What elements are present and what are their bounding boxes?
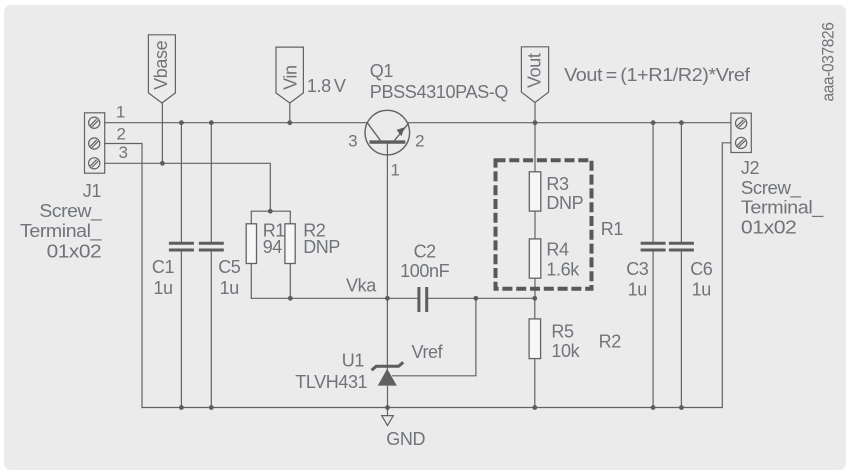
transistor Q1 <box>365 110 410 155</box>
svg-text:1: 1 <box>116 102 125 121</box>
svg-text:aaa-037826: aaa-037826 <box>820 22 838 101</box>
connector J2 screw terminal <box>731 113 751 152</box>
svg-text:1u: 1u <box>220 278 239 298</box>
capacitor C1 plates <box>169 243 194 250</box>
svg-text:PBSS4310PAS-Q: PBSS4310PAS-Q <box>370 82 509 102</box>
svg-text:Terminal_: Terminal_ <box>741 198 825 219</box>
capacitor C3 plates <box>641 243 666 250</box>
svg-text:R5: R5 <box>551 321 574 341</box>
svg-text:DNP: DNP <box>546 193 583 213</box>
svg-text:C2: C2 <box>414 241 437 261</box>
svg-text:01x02: 01x02 <box>47 242 102 262</box>
resistor R5 <box>529 319 541 359</box>
svg-text:Terminal_: Terminal_ <box>20 221 103 242</box>
shunt regulator U1 TLVH431 <box>372 362 404 385</box>
resistor R1 <box>246 224 256 264</box>
wire rail1 left (J1 pin1 to Q1 collector) <box>105 122 368 124</box>
wire GND stub <box>387 408 389 416</box>
svg-text:1.6k: 1.6k <box>546 259 580 279</box>
svg-text:GND: GND <box>386 429 425 449</box>
flag Vbase <box>148 35 175 103</box>
wire Vout flag lead <box>534 103 536 123</box>
svg-text:TLVH431: TLVH431 <box>295 372 367 392</box>
svg-text:01x02: 01x02 <box>741 217 797 237</box>
svg-text:J1: J1 <box>83 181 102 201</box>
svg-text:C6: C6 <box>690 259 713 279</box>
svg-text:Screw_: Screw_ <box>741 178 802 199</box>
wire R2 legs <box>289 211 291 298</box>
svg-text:2: 2 <box>116 125 125 144</box>
wire Vin flag lead <box>289 103 291 123</box>
wire R1-R2 top bar <box>251 210 290 212</box>
wire Vbase flag lead <box>161 103 163 164</box>
svg-text:R2: R2 <box>599 331 622 351</box>
svg-text:DNP: DNP <box>303 237 340 257</box>
wire Vka node (R1 bottom to C2 left plate) <box>251 297 417 299</box>
wire C1 vertical <box>180 123 182 408</box>
dashed feedback box R1 group <box>496 160 592 289</box>
svg-text:C3: C3 <box>626 259 649 279</box>
svg-text:3: 3 <box>118 143 127 162</box>
svg-text:1.8 V: 1.8 V <box>307 76 346 96</box>
svg-text:U1: U1 <box>342 351 365 371</box>
wire R3-R4 link <box>534 211 536 239</box>
svg-text:Vka: Vka <box>346 275 377 295</box>
wire ground rail <box>142 407 722 409</box>
svg-text:J2: J2 <box>741 158 760 178</box>
wire 3 (J1 pin3 to R1/R2 top) <box>105 163 271 211</box>
svg-text:2: 2 <box>415 132 424 151</box>
wire rail1 right (Q1 emitter to J2 pin1) <box>407 122 731 124</box>
wire U1 anode to ground rail <box>387 386 389 408</box>
svg-text:1u: 1u <box>153 278 172 298</box>
wire Q1 base down to U1 cathode <box>386 144 388 370</box>
wire R5 bottom lead <box>534 359 536 408</box>
wire R3 top lead from rail <box>534 123 536 172</box>
wire C5 vertical <box>210 123 212 408</box>
svg-text:1: 1 <box>390 161 399 180</box>
svg-text:Screw_: Screw_ <box>39 201 102 222</box>
wire C6 vertical <box>680 123 682 408</box>
wire C3 vertical <box>652 123 654 408</box>
svg-text:100nF: 100nF <box>400 261 449 281</box>
svg-text:Q1: Q1 <box>370 61 394 81</box>
svg-text:C1: C1 <box>152 257 175 277</box>
svg-text:Vbase: Vbase <box>151 40 171 89</box>
wire right riser to J2 pin2 <box>722 143 731 408</box>
svg-text:Vout = (1+R1/R2)*Vref: Vout = (1+R1/R2)*Vref <box>564 65 751 85</box>
svg-text:94: 94 <box>263 237 283 257</box>
wire R5 top lead <box>534 298 536 319</box>
svg-text:3: 3 <box>348 132 357 151</box>
capacitor C5 plates <box>199 243 224 250</box>
wire C2 right to R4/R5 node <box>428 297 535 299</box>
connector J1 screw terminal <box>85 113 105 173</box>
svg-text:R3: R3 <box>546 174 569 194</box>
ground symbol <box>382 416 394 426</box>
wire R4 bottom lead <box>534 278 536 298</box>
resistor R2 <box>285 224 295 264</box>
flag Vin <box>276 47 303 103</box>
svg-text:Vin: Vin <box>280 65 300 90</box>
wire 2 (J1 pin2 down to ground rail) <box>105 144 142 408</box>
svg-text:R1: R1 <box>601 219 624 239</box>
capacitor C6 plates <box>669 243 694 250</box>
capacitor C2 plates <box>419 287 427 312</box>
svg-text:R4: R4 <box>546 240 569 260</box>
svg-text:10k: 10k <box>551 341 580 361</box>
wire Vref tap <box>393 298 476 376</box>
svg-text:C5: C5 <box>218 257 241 277</box>
flag Vout <box>521 47 548 103</box>
svg-text:1u: 1u <box>628 280 647 300</box>
wire R1 legs <box>250 211 252 298</box>
svg-text:Vout: Vout <box>525 53 545 88</box>
svg-text:1u: 1u <box>692 280 711 300</box>
resistor R3 <box>529 172 541 211</box>
svg-text:Vref: Vref <box>412 342 444 362</box>
resistor R4 <box>529 239 541 278</box>
